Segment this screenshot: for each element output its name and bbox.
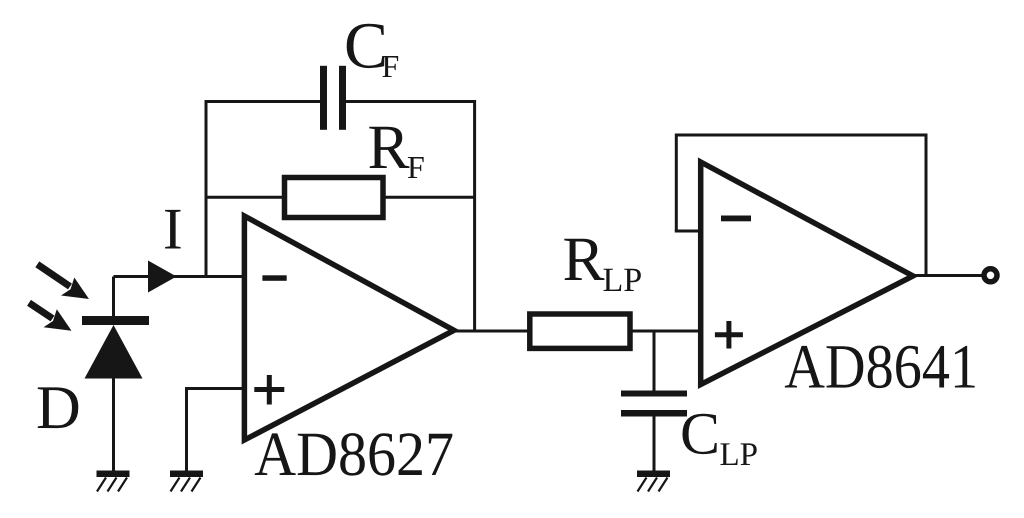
label RLP (564, 239, 641, 291)
wire: U2 feedback jog to inverting input (675, 230, 701, 233)
wire: U2 feedback left vertical (675, 134, 678, 232)
label AD8641 (785, 346, 975, 389)
wire: feedback right vertical down to U1 output (473, 100, 476, 331)
ground (photodiode) (97, 471, 130, 492)
wire: feedback left vertical (node at inverting input) (205, 100, 208, 277)
U1 minus marker (262, 275, 286, 281)
wire: U2 feedback top horizontal (676, 134, 926, 137)
wire: RF branch horizontal left (206, 196, 284, 199)
resistor RF (285, 178, 384, 218)
U1 plus marker (254, 375, 284, 405)
wire: U1 non-inverting input to ground (187, 389, 246, 473)
op-amp U2 AD8641 (701, 162, 913, 385)
wire: U2 feedback right vertical to output (925, 134, 928, 277)
wire: RLP to U2 non-inverting input (629, 330, 703, 333)
light arrow 2 (29, 303, 72, 331)
light arrow 1 (37, 264, 89, 299)
ground (U1 non-inverting input) (170, 471, 203, 492)
op-amp U1 AD8627 (244, 216, 454, 440)
label RF (369, 127, 423, 178)
wire (345, 100, 475, 103)
label CLP (682, 414, 756, 465)
wire: U1 output to RLP (452, 330, 531, 333)
U2 minus marker (721, 216, 751, 222)
resistor RLP (530, 314, 630, 348)
capacitor CF (320, 66, 346, 130)
output terminal (984, 269, 997, 282)
wire: photodiode bottom vertical to ground (112, 377, 115, 472)
wire: feedback top horizontal (CF branch) (206, 100, 321, 103)
photodiode D (82, 316, 149, 379)
wire: photodiode top vertical (112, 277, 115, 318)
current arrow I (148, 261, 177, 293)
wire: U2 output to terminal (911, 274, 983, 277)
ground (CLP) (637, 471, 670, 492)
label CF (347, 24, 398, 77)
U2 plus marker (715, 321, 743, 349)
wire: CLP bottom vertical to ground (653, 414, 656, 472)
label I (165, 210, 180, 249)
capacitor CLP (621, 391, 687, 417)
label D (38, 387, 79, 428)
wire: RF branch horizontal right (383, 196, 475, 199)
wire: photodiode input horizontal to U1 inverting input (114, 275, 246, 278)
label AD8627 (255, 433, 453, 476)
wire: CLP junction vertical (top) (653, 331, 656, 392)
